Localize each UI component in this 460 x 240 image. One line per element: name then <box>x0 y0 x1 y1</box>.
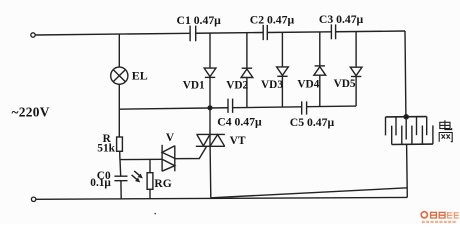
wire VT to bottom <box>209 146 212 198</box>
wire triac-out to corner <box>211 188 407 198</box>
wire top rail seg1 <box>35 33 190 35</box>
svg-text:~220V: ~220V <box>12 105 50 120</box>
label dian (grid) <box>440 120 452 129</box>
wire VT branch upper <box>209 108 211 135</box>
resistor R <box>117 137 123 151</box>
label wang (net) <box>439 133 452 142</box>
svg-text:VD2: VD2 <box>226 79 248 91</box>
wire R to node <box>120 151 121 176</box>
svg-text:VT: VT <box>230 135 246 147</box>
wire lamp to junction <box>118 84 120 137</box>
capacitor C2 <box>263 25 267 40</box>
diode VD4 <box>319 32 321 66</box>
svg-text:VD1: VD1 <box>183 80 205 92</box>
wire right vertical to grid <box>404 31 407 117</box>
wire lower rail seg2 <box>233 106 302 109</box>
wire lower rail seg1 <box>119 108 228 109</box>
lamp EL <box>111 67 128 84</box>
wire top rail seg4 <box>336 30 405 33</box>
svg-text:51k: 51k <box>97 142 115 154</box>
svg-text:C3 0.47μ: C3 0.47μ <box>319 13 364 26</box>
wire lower rail seg3 <box>307 105 357 108</box>
diac V <box>161 145 163 172</box>
svg-text:0.1μ: 0.1μ <box>90 177 111 189</box>
capacitor C5 <box>302 101 307 114</box>
wire lamp branch top <box>118 34 120 67</box>
terminal bottom-left <box>31 197 35 201</box>
stray ink dot <box>154 213 156 215</box>
watermark logo <box>421 212 459 224</box>
svg-text:VD5: VD5 <box>334 78 356 90</box>
triac VT <box>196 133 225 135</box>
svg-text:VD3: VD3 <box>261 79 283 91</box>
svg-text:VD4: VD4 <box>297 78 319 90</box>
diode VD5 <box>355 32 357 68</box>
svg-text:C1 0.47μ: C1 0.47μ <box>177 14 222 27</box>
wire C0 to bottom rail <box>120 181 122 199</box>
photoresistor RG <box>149 159 151 172</box>
diode VD1 <box>209 33 211 68</box>
RG light arrows <box>134 171 139 175</box>
wire top rail seg3 <box>267 31 331 34</box>
capacitor C3 <box>331 24 335 39</box>
wire top rail seg2 <box>196 32 264 35</box>
capacitor C4 <box>228 99 233 113</box>
wire bottom rail <box>36 197 407 199</box>
terminal top-left <box>31 33 35 37</box>
capacitor C1 <box>190 26 196 42</box>
svg-text:C5 0.47μ: C5 0.47μ <box>290 116 335 129</box>
svg-text:V: V <box>166 132 175 144</box>
svg-text:C4 0.47μ: C4 0.47μ <box>217 115 262 128</box>
wire node to diac <box>120 158 162 160</box>
wire gate diagonal <box>175 147 207 159</box>
ion grid symbol <box>386 116 427 118</box>
capacitor C0 <box>114 176 127 181</box>
junction dot lower rail <box>208 106 212 110</box>
svg-text:EL: EL <box>132 68 148 82</box>
diode VD2 <box>246 33 248 68</box>
diode VD3 <box>281 32 283 67</box>
svg-text:C2 0.47μ: C2 0.47μ <box>250 13 295 26</box>
wire grid to bottom rail <box>406 144 409 197</box>
svg-text:RG: RG <box>154 178 171 190</box>
junction dot grid feed <box>404 115 408 119</box>
